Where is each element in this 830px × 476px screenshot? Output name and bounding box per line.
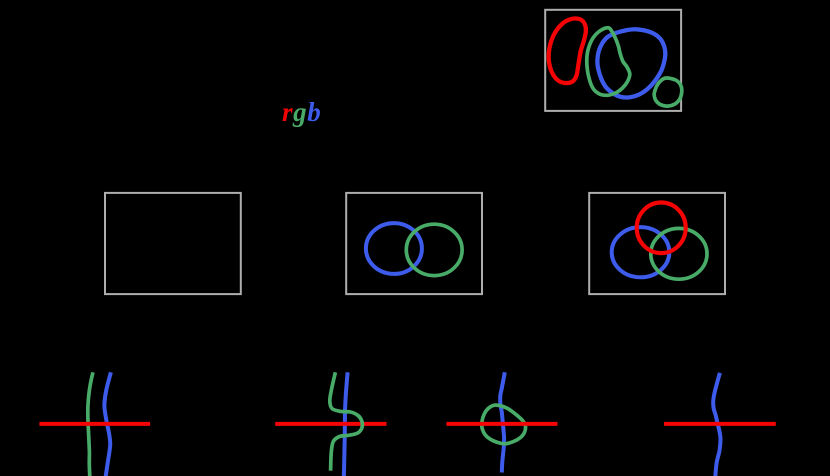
box frame middle-left (empty) (105, 193, 241, 294)
blue blob in top-right box (597, 29, 665, 97)
green circle in middle-right box (651, 228, 707, 279)
figure 4: red horizontal line (664, 422, 776, 426)
figure 2: red horizontal line (275, 422, 386, 426)
green blob in top-right box (587, 28, 630, 96)
blue circle in middle-right box (612, 227, 670, 277)
figure 2: green curve with hook (330, 372, 363, 470)
green circle in middle-center box (406, 224, 462, 275)
figure 4: blue curve (713, 373, 720, 476)
box frame top-right (545, 10, 681, 111)
figure 3: green small ellipse (482, 405, 526, 444)
figure 1: blue curve (104, 372, 111, 476)
box frame middle-center (346, 193, 482, 294)
box frame middle-right (589, 193, 725, 294)
figure 3: red horizontal line (446, 422, 557, 426)
small green blob in top-right box (654, 78, 682, 106)
figure 1: green curve (88, 372, 93, 476)
red blob in top-right box (549, 18, 586, 83)
red circle in middle-right box (637, 203, 686, 254)
label rgb (282, 99, 321, 126)
figure 1: red horizontal line (39, 422, 150, 426)
blue circle in middle-center box (366, 223, 422, 274)
figure 2: blue curve (344, 372, 348, 476)
figure 3: blue curve (500, 372, 505, 472)
